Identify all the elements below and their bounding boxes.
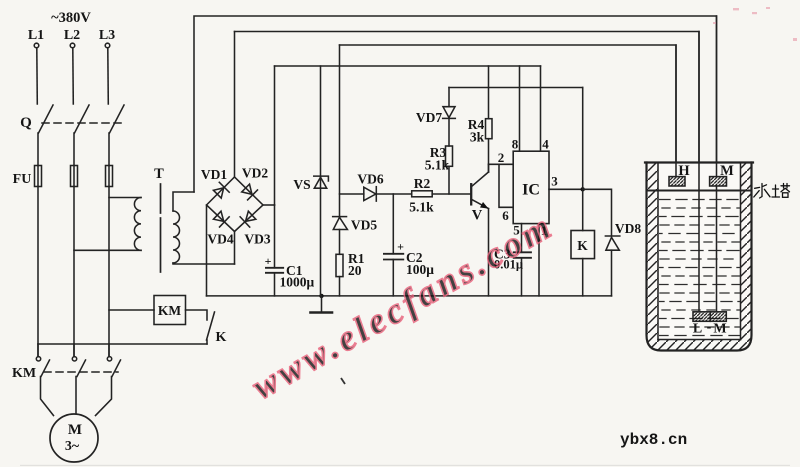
svg-text:VD6: VD6 [357,172,383,187]
pin 3 wire [549,188,583,190]
svg-text:ybx8.cn: ybx8.cn [620,431,687,449]
wire L3 mid [108,133,110,166]
diode VD6 [364,187,376,200]
wire pin6 jog [499,164,513,207]
resistor R2 [412,191,433,197]
svg-text:5.1k: 5.1k [425,158,450,173]
wire secondary top to rail1 [173,192,194,211]
switch Q pole 3 [110,105,125,133]
rail4 [275,65,541,67]
capacitor C1 [274,205,276,268]
VD7/R3 branch from rail5 [448,88,450,107]
wire L3 lower [108,187,110,357]
fuse FU1 [35,166,42,187]
svg-text:-: - [707,320,712,335]
svg-text:K: K [216,330,227,345]
relay K box [571,231,595,259]
contact K blade [207,312,215,340]
wire junction to rail5 [582,88,584,190]
wire secondary bottom to bridge bottom [173,263,235,264]
svg-text:~380V: ~380V [51,10,91,26]
diode VD3 [240,210,257,227]
capacitor C2 [392,194,394,254]
svg-text:3k: 3k [470,130,485,145]
svg-text:VD5: VD5 [351,218,377,233]
ground rail [207,295,612,297]
ground node dot [319,294,323,298]
KM coil box [154,296,186,325]
wire KM-coil return to L1 [38,343,207,345]
resistor R3 [446,146,453,166]
KM main contact stubs [37,344,39,357]
pin 1 [538,224,540,296]
KM contact blade 3 [112,360,121,377]
svg-text:L3: L3 [99,28,115,43]
diode VD5 [333,217,347,229]
op-amp IC [513,151,549,223]
svg-text:M: M [720,163,734,179]
wire L3 to transformer primary top [109,197,141,199]
svg-text:K: K [577,238,588,253]
wire L2 upper [72,48,75,104]
svg-text:VD7: VD7 [416,110,442,125]
fuse FU2 [71,166,78,187]
svg-text:L2: L2 [64,28,80,43]
wire L3 to KM coil [109,309,154,311]
pin 5 [521,224,523,253]
wire L2 to transformer primary bottom [74,249,141,251]
water dashes [659,200,740,336]
svg-text:20: 20 [348,263,362,278]
svg-text:H: H [678,163,690,179]
wire H electrode [675,45,677,177]
wire bridge bottom [234,232,236,265]
svg-text:L: L [693,322,702,337]
transformer core [160,184,162,213]
KM contact blade 2 [77,360,86,377]
svg-text:8: 8 [512,137,519,152]
svg-text:VD3: VD3 [244,232,270,247]
svg-text:6: 6 [502,208,509,223]
wire M electrode [716,16,718,177]
KM contact circle 3 [107,357,111,361]
svg-text:+: + [397,240,404,254]
wire to motor mid [75,377,77,414]
node pin3 junction [581,187,585,191]
svg-text:2: 2 [498,150,505,165]
wire to motor left [41,377,54,416]
ground symbol [321,296,323,311]
diode VD7 [443,107,455,118]
svg-text:5.1k: 5.1k [409,200,434,215]
KM linkage dashed [44,371,118,373]
bottom scan artifact [20,465,790,466]
svg-text:IC: IC [522,182,540,199]
svg-text:T: T [154,166,164,182]
electrode M top [710,177,727,186]
diode VD2 [241,183,258,200]
transformer primary winding [134,198,141,251]
svg-text:3: 3 [551,174,558,189]
wire to motor right [96,377,112,416]
svg-text:1000μ: 1000μ [280,275,315,290]
zener VS [320,66,322,296]
transformer secondary winding [173,211,180,263]
wire KM coil to contact K [186,310,208,320]
switch Q pole 1 [39,105,54,133]
svg-text:VD2: VD2 [242,166,268,181]
wire L electrode [698,32,700,312]
rail1 top [194,16,717,192]
transistor V [470,184,472,204]
svg-text:VD1: VD1 [201,167,227,182]
electrode L-M bottom [693,312,726,322]
svg-text:FU: FU [13,172,32,187]
svg-text:L1: L1 [28,28,44,43]
water surface [647,190,752,192]
svg-text:M: M [713,322,726,337]
svg-text:VD8: VD8 [615,221,641,236]
svg-text:V: V [472,208,483,224]
KM contact blade 1 [41,360,50,377]
svg-text:+: + [265,254,272,268]
wire junction to K [582,189,584,230]
resistor R4 [486,119,493,139]
fuse FU3 [106,166,113,187]
wire L2 lower [73,187,75,357]
svg-text:Q: Q [20,115,32,131]
diode VD8 [605,235,619,237]
scan specks [341,378,345,384]
rail5 [449,87,583,89]
wire bridge left to ground rail [206,205,208,296]
svg-text:KM: KM [158,303,182,318]
VD5 line from rail3 [339,45,341,217]
wire L2 mid [73,133,75,166]
R4 branch from rail4 [488,66,490,119]
wire junction to VD8 [583,189,612,236]
base wire [340,193,364,195]
svg-text:www.elecfans.com: www.elecfans.com [245,205,560,407]
svg-text:KM: KM [12,366,36,381]
pin 8 [519,66,521,151]
svg-text:VD4: VD4 [207,232,233,247]
wire L1 lower [37,187,39,357]
rail3 [340,45,677,177]
switch Q pole 2 [75,105,90,133]
svg-text:VS: VS [293,177,310,192]
wire C1 node to rail4 [274,66,276,205]
pin 4 [540,66,542,151]
diode VD4 [212,210,229,227]
rail2 [235,32,700,312]
label 水塔 [754,184,790,199]
wire bridge top to rail2 [234,32,236,178]
wire L3 upper [107,48,110,104]
water tower body [647,163,752,351]
wire collector to pin2 [489,163,514,165]
wire L1 upper [36,48,39,104]
svg-text:R2: R2 [414,176,431,191]
KM contact circle 1 [36,357,40,361]
diode VD1 [212,182,229,199]
electrode H [669,177,685,186]
bridge rectifier diamond [207,177,264,232]
svg-text:3~: 3~ [65,439,80,454]
capacitor C3 [514,251,531,253]
motor M [50,414,98,462]
resistor R1 [336,254,343,276]
svg-text:M: M [68,422,82,438]
switch Q linkage dashed [42,122,122,124]
KM contact circle 2 [72,357,76,361]
wire L1 mid [37,133,39,166]
svg-text:4: 4 [542,137,549,152]
wire bridge right to C1 node [263,204,275,206]
